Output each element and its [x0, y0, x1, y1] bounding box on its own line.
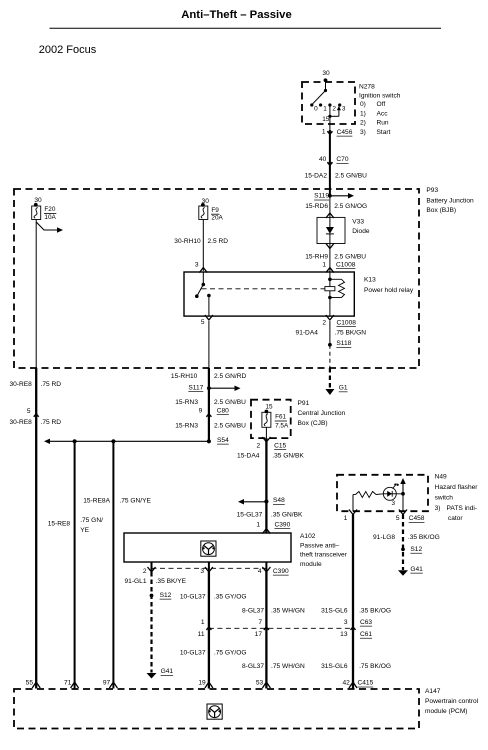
- svg-text:1: 1: [201, 619, 205, 626]
- svg-text:9: 9: [199, 407, 203, 414]
- svg-text:0: 0: [314, 105, 318, 112]
- svg-text:Battery Junction: Battery Junction: [426, 198, 474, 205]
- svg-text:C456: C456: [337, 129, 353, 136]
- svg-text:S117: S117: [188, 384, 203, 391]
- svg-text:2.5 GN/BU: 2.5 GN/BU: [335, 173, 367, 180]
- svg-text:2.5 GN/BU: 2.5 GN/BU: [334, 254, 366, 261]
- svg-text:Box (BJB): Box (BJB): [426, 207, 456, 214]
- svg-text:N49: N49: [435, 474, 447, 481]
- svg-text:Power hold relay: Power hold relay: [364, 287, 414, 294]
- svg-text:11: 11: [198, 631, 205, 638]
- svg-text:G41: G41: [410, 566, 423, 573]
- svg-text:.75 BK/OG: .75 BK/OG: [359, 663, 391, 670]
- svg-text:.75 GN/: .75 GN/: [80, 517, 103, 524]
- svg-text:10A: 10A: [44, 214, 56, 221]
- svg-text:5: 5: [201, 319, 205, 326]
- svg-text:1: 1: [322, 261, 326, 268]
- svg-text:15-DA2: 15-DA2: [305, 173, 328, 180]
- svg-text:V33: V33: [352, 219, 364, 226]
- svg-text:F20: F20: [44, 206, 55, 213]
- svg-text:5: 5: [396, 515, 400, 522]
- svg-text:Diode: Diode: [352, 228, 370, 235]
- svg-text:15-RD6: 15-RD6: [305, 203, 328, 210]
- svg-text:C70: C70: [336, 156, 348, 163]
- svg-text:7.5A: 7.5A: [275, 422, 289, 429]
- svg-text:C15: C15: [274, 442, 286, 449]
- svg-text:P93: P93: [426, 187, 438, 194]
- svg-text:2: 2: [332, 105, 336, 112]
- svg-text:4: 4: [258, 568, 262, 575]
- svg-text:C415: C415: [358, 680, 374, 687]
- svg-text:20A: 20A: [211, 215, 223, 222]
- svg-text:3: 3: [344, 619, 348, 626]
- svg-text:.35 GN/BK: .35 GN/BK: [272, 453, 304, 460]
- svg-text:1: 1: [256, 522, 260, 529]
- svg-text:3: 3: [392, 500, 396, 507]
- svg-text:8-GL37: 8-GL37: [242, 608, 264, 615]
- svg-text:10-GL37: 10-GL37: [180, 593, 206, 600]
- svg-text:.35 GY/OG: .35 GY/OG: [214, 593, 247, 600]
- svg-text:P91: P91: [298, 400, 310, 407]
- svg-text:30: 30: [34, 197, 42, 204]
- svg-text:71: 71: [64, 680, 72, 687]
- svg-text:Acc: Acc: [377, 110, 389, 117]
- svg-text:.35 BK/YE: .35 BK/YE: [156, 578, 187, 585]
- svg-text:C63: C63: [360, 619, 372, 626]
- svg-text:C1008: C1008: [337, 319, 357, 326]
- svg-text:15-RH10: 15-RH10: [171, 373, 198, 380]
- svg-text:3): 3): [360, 129, 366, 136]
- svg-text:2): 2): [360, 120, 366, 127]
- svg-text:S12: S12: [410, 546, 422, 553]
- svg-text:17: 17: [255, 631, 263, 638]
- svg-text:C80: C80: [217, 407, 229, 414]
- svg-text:C61: C61: [360, 631, 372, 638]
- svg-text:C390: C390: [273, 568, 289, 575]
- svg-text:.35 WH/GN: .35 WH/GN: [271, 608, 305, 615]
- svg-text:30-RE8: 30-RE8: [9, 381, 32, 388]
- svg-text:C458: C458: [409, 515, 425, 522]
- svg-text:A147: A147: [425, 688, 441, 695]
- svg-text:0): 0): [360, 101, 366, 108]
- svg-text:15-DA4: 15-DA4: [237, 453, 260, 460]
- svg-text:2.5 GN/RD: 2.5 GN/RD: [214, 373, 246, 380]
- svg-text:cator: cator: [448, 515, 463, 522]
- svg-text:91-DA4: 91-DA4: [296, 329, 319, 336]
- svg-text:15-RN3: 15-RN3: [175, 422, 198, 429]
- svg-text:13: 13: [340, 631, 348, 638]
- svg-text:N278: N278: [359, 84, 375, 91]
- svg-text:3): 3): [435, 505, 441, 512]
- svg-text:.75 GY/OG: .75 GY/OG: [214, 649, 247, 656]
- svg-text:2.5 RD: 2.5 RD: [208, 238, 229, 245]
- svg-text:YE: YE: [80, 527, 89, 534]
- svg-text:K13: K13: [364, 277, 376, 284]
- svg-text:15-RN3: 15-RN3: [175, 399, 198, 406]
- svg-text:.75 GN/YE: .75 GN/YE: [119, 498, 151, 505]
- svg-text:.35 BK/OG: .35 BK/OG: [408, 534, 440, 541]
- svg-text:3: 3: [200, 568, 204, 575]
- svg-text:91-GL1: 91-GL1: [125, 578, 147, 585]
- svg-text:module: module: [300, 561, 322, 568]
- svg-text:31S-GL6: 31S-GL6: [321, 608, 348, 615]
- svg-text:3: 3: [342, 105, 346, 112]
- svg-text:.75 BK/GN: .75 BK/GN: [335, 329, 367, 336]
- svg-text:15: 15: [265, 404, 273, 411]
- svg-text:Anti–Theft – Passive: Anti–Theft – Passive: [181, 9, 292, 21]
- svg-text:19: 19: [198, 680, 206, 687]
- svg-text:30: 30: [322, 70, 330, 77]
- svg-text:91-LG8: 91-LG8: [373, 534, 395, 541]
- svg-text:C1008: C1008: [336, 261, 356, 268]
- svg-text:Passive anti–: Passive anti–: [300, 542, 340, 549]
- svg-text:.35 BK/OG: .35 BK/OG: [359, 608, 391, 615]
- svg-text:1: 1: [322, 128, 326, 135]
- svg-text:F61: F61: [275, 414, 286, 421]
- svg-text:2.5 GN/BU: 2.5 GN/BU: [214, 422, 246, 429]
- svg-text:53: 53: [256, 680, 264, 687]
- svg-text:Central Junction: Central Junction: [298, 410, 346, 417]
- svg-text:Powertrain control: Powertrain control: [425, 698, 479, 705]
- svg-text:S119: S119: [314, 193, 329, 200]
- svg-text:Ignition switch: Ignition switch: [359, 93, 401, 100]
- svg-text:2: 2: [257, 442, 261, 449]
- svg-text:30-RH10: 30-RH10: [174, 238, 201, 245]
- svg-text:.75 RD: .75 RD: [41, 381, 62, 388]
- svg-text:15-RE8A: 15-RE8A: [83, 498, 110, 505]
- svg-text:2.5 GN/OG: 2.5 GN/OG: [334, 203, 367, 210]
- svg-text:15-GL37: 15-GL37: [237, 511, 263, 518]
- svg-text:Start: Start: [377, 129, 391, 136]
- svg-text:1: 1: [323, 105, 327, 112]
- svg-text:A102: A102: [300, 533, 316, 540]
- svg-text:42: 42: [342, 680, 350, 687]
- svg-text:.75 WH/GN: .75 WH/GN: [271, 663, 305, 670]
- svg-text:5: 5: [27, 408, 31, 415]
- svg-text:module (PCM): module (PCM): [425, 708, 468, 715]
- svg-text:40: 40: [319, 156, 327, 163]
- svg-text:G1: G1: [339, 385, 348, 392]
- svg-text:S12: S12: [160, 592, 172, 599]
- svg-text:Run: Run: [377, 120, 389, 127]
- svg-text:2002 Focus: 2002 Focus: [39, 44, 97, 56]
- svg-text:S54: S54: [217, 437, 229, 444]
- svg-text:30-RE8: 30-RE8: [9, 419, 32, 426]
- svg-text:15-RE8: 15-RE8: [48, 521, 71, 528]
- svg-text:1): 1): [360, 110, 366, 117]
- svg-text:15-RH9: 15-RH9: [305, 254, 328, 261]
- svg-text:1: 1: [344, 515, 348, 522]
- svg-text:2: 2: [143, 568, 147, 575]
- svg-text:2: 2: [322, 319, 326, 326]
- svg-text:15: 15: [322, 116, 330, 123]
- svg-text:8-GL37: 8-GL37: [242, 663, 264, 670]
- svg-text:.35 GN/BK: .35 GN/BK: [271, 511, 303, 518]
- svg-text:theft transceiver: theft transceiver: [300, 552, 348, 559]
- svg-text:Hazard flasher: Hazard flasher: [435, 484, 479, 491]
- svg-text:C390: C390: [275, 521, 291, 528]
- svg-text:10-GL37: 10-GL37: [180, 649, 206, 656]
- svg-text:3: 3: [195, 261, 199, 268]
- svg-text:PATS indi-: PATS indi-: [447, 505, 478, 512]
- svg-text:31S-GL6: 31S-GL6: [321, 663, 348, 670]
- svg-text:97: 97: [103, 680, 111, 687]
- svg-text:F9: F9: [211, 207, 219, 214]
- svg-text:2.5 GN/BU: 2.5 GN/BU: [214, 399, 246, 406]
- svg-text:7: 7: [258, 619, 262, 626]
- svg-text:S48: S48: [273, 497, 285, 504]
- svg-text:S118: S118: [336, 340, 351, 347]
- svg-text:switch: switch: [435, 495, 454, 502]
- svg-text:55: 55: [26, 680, 34, 687]
- svg-text:Box (CJB): Box (CJB): [298, 420, 328, 427]
- svg-text:Off: Off: [377, 101, 386, 108]
- svg-text:.75 RD: .75 RD: [41, 419, 62, 426]
- svg-text:G41: G41: [161, 668, 174, 675]
